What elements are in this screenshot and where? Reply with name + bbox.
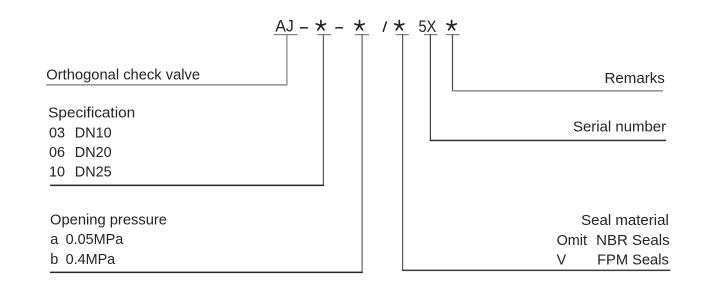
- svg-text:06: 06: [49, 145, 65, 161]
- svg-text:5X: 5X: [419, 18, 437, 36]
- svg-text:03: 03: [49, 125, 65, 141]
- svg-text:V: V: [557, 253, 567, 269]
- svg-text:Serial number: Serial number: [573, 119, 666, 135]
- svg-text:a: a: [50, 232, 58, 248]
- svg-text:AJ: AJ: [275, 18, 293, 36]
- svg-text:0.4MPa: 0.4MPa: [66, 252, 116, 268]
- svg-text:Opening pressure: Opening pressure: [50, 213, 167, 229]
- svg-text:b: b: [50, 252, 58, 268]
- svg-text:Remarks: Remarks: [605, 71, 665, 87]
- svg-text:NBR Seals: NBR Seals: [596, 233, 670, 249]
- svg-text:Omit: Omit: [557, 233, 587, 249]
- svg-text:FPM Seals: FPM Seals: [597, 253, 669, 269]
- svg-text:Seal material: Seal material: [581, 213, 669, 229]
- svg-text:10: 10: [49, 165, 65, 181]
- svg-text:DN25: DN25: [75, 165, 112, 181]
- svg-text:Orthogonal check valve: Orthogonal check valve: [46, 68, 200, 84]
- svg-text:0.05MPa: 0.05MPa: [66, 232, 124, 248]
- svg-text:DN20: DN20: [75, 145, 112, 161]
- svg-text:DN10: DN10: [75, 125, 112, 141]
- svg-text:Specification: Specification: [48, 106, 135, 122]
